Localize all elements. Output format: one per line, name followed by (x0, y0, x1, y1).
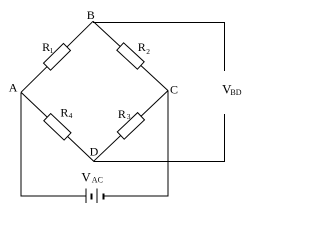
battery plate short 2 (103, 193, 105, 199)
wire B to top-right corner (93, 21, 225, 23)
wire A-D (21, 92, 94, 161)
svg-text:2: 2 (146, 47, 150, 56)
svg-text:AC: AC (92, 176, 103, 185)
svg-text:R: R (118, 107, 126, 121)
resistor R1 body (44, 43, 71, 70)
resistor R4 body (44, 114, 71, 141)
resistor R2 body (117, 43, 144, 69)
svg-text:D: D (90, 145, 99, 159)
wire A-B (21, 21, 93, 92)
battery plate short 1 (91, 193, 93, 199)
svg-text:1: 1 (50, 46, 54, 55)
svg-text:R: R (60, 106, 68, 120)
wire B-C (93, 21, 168, 90)
wire D-C (94, 91, 168, 162)
svg-text:BD: BD (230, 88, 241, 97)
svg-text:C: C (170, 82, 178, 96)
wire D to right vertical (94, 160, 225, 162)
wire C down (167, 91, 169, 197)
svg-text:V: V (81, 169, 91, 184)
battery plate long 2 (96, 189, 98, 204)
wire A down (20, 92, 22, 196)
svg-text:B: B (87, 8, 95, 22)
svg-text:3: 3 (127, 112, 131, 121)
wire bottom rail left (21, 195, 85, 197)
wire right vertical lower (below VBD label) (224, 114, 226, 162)
wire bottom rail right (104, 195, 169, 197)
svg-text:R: R (138, 40, 146, 54)
battery V_AC plate long 1 (85, 189, 87, 204)
resistor R3 body (117, 113, 144, 140)
svg-text:4: 4 (69, 111, 73, 120)
wire right vertical upper (above VBD label) (224, 22, 226, 71)
svg-text:A: A (9, 81, 18, 95)
